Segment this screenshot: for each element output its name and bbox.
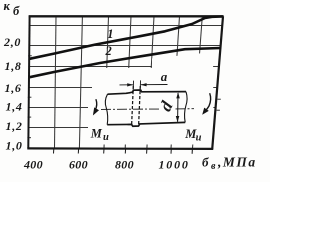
svg-text:1,0: 1,0 [6,139,23,153]
svg-text:б: б [202,154,209,169]
svg-text:и: и [103,132,109,143]
svg-text:2: 2 [105,44,112,58]
svg-text:а: а [161,69,168,84]
svg-text:1,8: 1,8 [5,59,22,73]
svg-text:1000: 1000 [159,158,190,172]
svg-text:,МПа: ,МПа [217,155,257,170]
svg-text:1: 1 [107,27,113,41]
svg-text:400: 400 [23,158,43,172]
svg-text:1,4: 1,4 [6,99,23,113]
svg-text:2,0: 2,0 [3,35,21,49]
svg-text:600: 600 [69,158,88,172]
svg-text:1,6: 1,6 [5,81,22,95]
svg-text:в: в [211,161,216,172]
svg-text:б: б [13,4,20,18]
svg-text:800: 800 [115,158,134,172]
svg-text:1,2: 1,2 [6,119,23,133]
svg-text:М: М [90,126,103,140]
svg-text:к: к [4,0,11,13]
svg-text:и: и [196,132,202,143]
